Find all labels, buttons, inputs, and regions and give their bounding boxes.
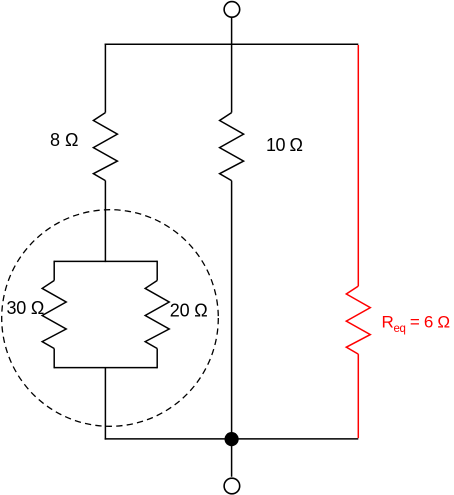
wire: 30-ohm bottom stub	[53, 349, 55, 369]
resistor 20 ohm	[145, 281, 169, 349]
wire: top horizontal rail	[105, 43, 359, 45]
wire: top terminal down to 10-ohm resistor top	[231, 17, 233, 112]
wire: left branch bottom vertical	[104, 368, 106, 440]
dashed highlight circle around 30/20 ohm parallel combination	[2, 210, 219, 427]
wire: 30-ohm top stub	[53, 261, 55, 281]
wire: left branch top vertical	[104, 44, 106, 113]
terminal B (bottom, open circle)	[224, 478, 240, 494]
resistor 30 ohm	[42, 281, 66, 349]
svg-text:30 Ω: 30 Ω	[7, 298, 45, 318]
terminal A (top, open circle)	[224, 2, 240, 18]
wire: red equivalent branch bottom vertical	[357, 354, 359, 438]
svg-text:20 Ω: 20 Ω	[170, 301, 208, 321]
wire: parallel block bottom rail	[54, 367, 157, 369]
wire: 20-ohm bottom stub	[156, 349, 158, 369]
resistor 8 ohm	[93, 113, 117, 181]
wire: left branch between 8-ohm and parallel block	[104, 181, 106, 263]
wire: parallel block top rail	[54, 260, 157, 262]
wire: bottom horizontal rail	[105, 438, 359, 440]
svg-text:8 Ω: 8 Ω	[50, 130, 78, 150]
resistor Req (red)	[346, 286, 370, 354]
svg-text:10 Ω: 10 Ω	[266, 135, 303, 155]
wire: middle branch 10-ohm bottom down to bottom terminal	[231, 181, 233, 477]
resistor 10 ohm	[220, 113, 244, 181]
wire: red equivalent branch top vertical	[357, 45, 359, 286]
wire: 20-ohm top stub	[156, 261, 158, 281]
junction node (filled dot on bottom rail)	[225, 432, 239, 446]
